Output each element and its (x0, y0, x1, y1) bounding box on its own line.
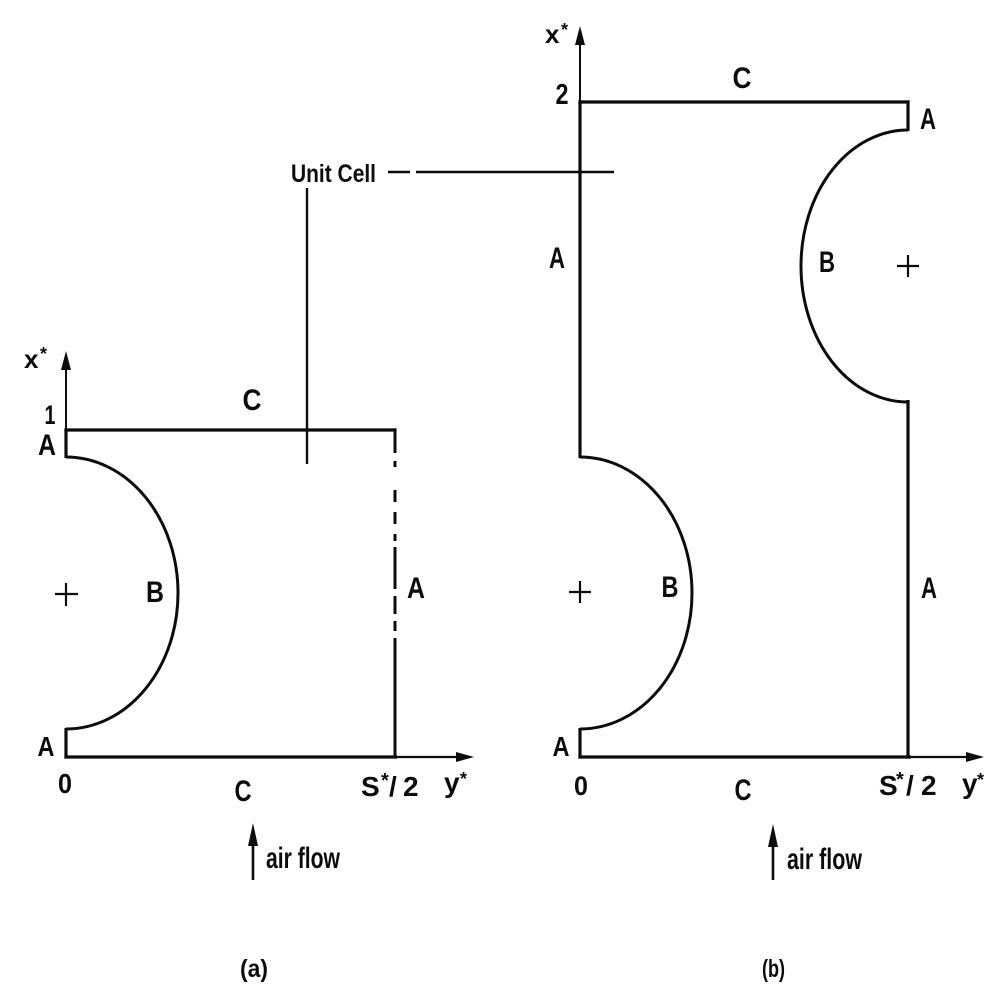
svg-text:C: C (243, 384, 262, 417)
svg-text:A: A (921, 572, 937, 605)
svg-text:air flow: air flow (266, 842, 340, 875)
svg-text:*: * (381, 770, 389, 792)
svg-text:2: 2 (403, 771, 419, 802)
svg-text:B: B (819, 246, 835, 279)
svg-text:y: y (962, 768, 978, 799)
svg-text:air flow: air flow (787, 843, 862, 876)
svg-text:/: / (906, 770, 914, 801)
svg-text:1: 1 (45, 400, 56, 430)
svg-text:A: A (920, 103, 936, 136)
svg-text:C: C (235, 775, 252, 808)
svg-text:A: A (38, 731, 55, 762)
svg-text:x: x (545, 19, 560, 49)
svg-text:0: 0 (58, 768, 72, 799)
svg-text:2: 2 (556, 79, 569, 111)
svg-text:y: y (444, 767, 460, 798)
svg-text:(a): (a) (240, 955, 268, 983)
svg-text:A: A (407, 572, 425, 605)
svg-text:Unit Cell: Unit Cell (291, 160, 376, 188)
svg-text:/: / (389, 771, 397, 802)
svg-text:*: * (896, 769, 904, 791)
svg-text:S: S (361, 771, 380, 802)
svg-text:*: * (977, 770, 984, 790)
svg-text:x: x (24, 344, 39, 374)
svg-text:A: A (553, 731, 570, 762)
svg-text:B: B (146, 576, 164, 609)
svg-text:C: C (735, 774, 752, 807)
svg-text:0: 0 (574, 771, 588, 801)
svg-text:*: * (40, 344, 47, 364)
svg-text:(b): (b) (762, 955, 785, 983)
svg-text:*: * (561, 20, 568, 40)
svg-text:*: * (460, 769, 467, 789)
svg-text:A: A (549, 242, 565, 275)
svg-text:C: C (733, 62, 752, 95)
svg-text:A: A (38, 429, 56, 462)
svg-text:2: 2 (921, 770, 937, 801)
svg-text:S: S (879, 770, 898, 801)
svg-text:B: B (662, 571, 679, 604)
